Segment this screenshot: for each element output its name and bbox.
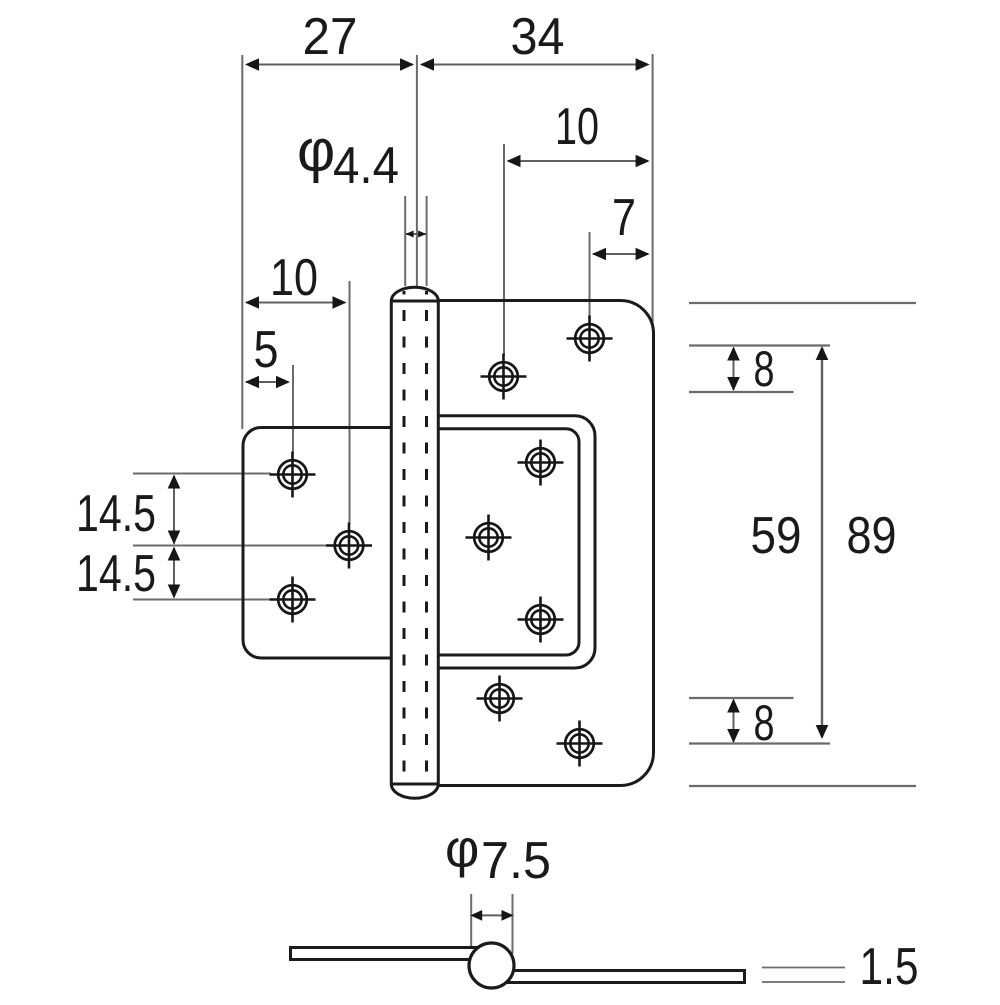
svg-text:14.5: 14.5 — [76, 545, 156, 603]
extension line pin center — [416, 55, 418, 288]
reference line row 8 top — [689, 344, 830, 346]
hole H3 — [270, 577, 316, 623]
leader line hole row 3 — [133, 599, 271, 601]
svg-text:4.4: 4.4 — [333, 137, 399, 195]
extension line left (27 dim / plate left) — [241, 55, 243, 429]
side view left plate top — [291, 946, 479, 949]
hole H10 — [557, 721, 603, 767]
barrel top chord — [391, 300, 438, 303]
hole H9 — [477, 676, 523, 722]
leader line hole row 2 — [133, 545, 328, 547]
svg-text:10: 10 — [270, 249, 318, 307]
barrel right edge — [437, 301, 440, 784]
hole H4 — [481, 354, 527, 400]
side view right plate top — [513, 969, 744, 972]
left plate outline — [243, 428, 392, 659]
dim 14.5 upper line — [173, 476, 175, 544]
dim 7 line — [593, 253, 648, 255]
reference line bottom edge — [689, 785, 916, 787]
side view extension line left — [470, 894, 472, 946]
extension line hole col left-10 — [349, 281, 351, 524]
right plate outline — [438, 301, 653, 786]
dim 10 left line — [246, 302, 345, 304]
svg-text:7.5: 7.5 — [481, 832, 551, 890]
dim 14.5 lower line — [173, 548, 175, 597]
svg-text:φ: φ — [445, 820, 479, 879]
thickness leader upper — [762, 967, 845, 969]
svg-text:14.5: 14.5 — [76, 485, 156, 543]
side view right plate end cap — [743, 969, 746, 984]
side view left plate end cap — [289, 946, 292, 961]
svg-text:27: 27 — [303, 8, 358, 66]
dim 8 bottom line — [733, 700, 735, 742]
hole H5 — [567, 316, 613, 362]
svg-text:7: 7 — [612, 189, 636, 247]
svg-text:1.5: 1.5 — [860, 938, 919, 996]
side view left plate bottom — [291, 958, 470, 961]
leader line hole row 1 — [133, 473, 271, 475]
hole H1 — [270, 452, 316, 498]
svg-text:34: 34 — [511, 8, 565, 66]
dim phi4.4 small arrows — [406, 233, 426, 235]
extension line hole col right-10 — [503, 144, 505, 355]
dim 59-89 tall line — [821, 348, 823, 737]
barrel bottom dome — [391, 784, 438, 798]
barrel dashed line right — [425, 291, 428, 781]
barrel top dome — [391, 287, 438, 301]
hole H6 — [518, 440, 564, 486]
dim 8 top line — [733, 348, 735, 390]
svg-text:5: 5 — [254, 321, 279, 379]
svg-text:10: 10 — [555, 98, 599, 156]
recess outer outline — [438, 416, 595, 668]
reference line hole lower — [689, 697, 794, 699]
barrel bottom chord — [391, 783, 438, 786]
svg-text:59: 59 — [751, 507, 802, 565]
extension line right edge — [652, 54, 654, 327]
extension line phi4.4 right — [426, 196, 428, 286]
dim phi7.5 arrows — [472, 914, 512, 916]
side view right plate bottom — [506, 981, 744, 984]
svg-text:φ: φ — [297, 118, 335, 184]
extension line hole col 5 — [292, 365, 294, 453]
dim 34 line — [421, 64, 648, 66]
reference line hole upper — [689, 391, 794, 393]
barrel dashed line left — [403, 291, 406, 781]
reference line top edge — [689, 302, 916, 304]
hole H7 — [466, 515, 512, 561]
side view barrel circle — [469, 943, 514, 988]
svg-text:8: 8 — [754, 695, 775, 751]
hole H8 — [518, 597, 564, 643]
dim 10 top-right line — [508, 160, 648, 162]
extension line phi4.4 left — [404, 196, 406, 286]
recess inner outline — [438, 429, 579, 655]
hole H2 — [326, 523, 372, 569]
svg-text:89: 89 — [847, 507, 897, 565]
extension line hole col 7 — [589, 232, 591, 317]
barrel left edge — [390, 301, 393, 784]
thickness leader lower — [762, 981, 845, 983]
side view extension line right — [512, 894, 514, 954]
svg-text:8: 8 — [754, 341, 775, 397]
dim 27 line — [247, 64, 413, 66]
reference line row 8 bottom — [689, 742, 830, 744]
dim 5 line — [246, 381, 288, 383]
